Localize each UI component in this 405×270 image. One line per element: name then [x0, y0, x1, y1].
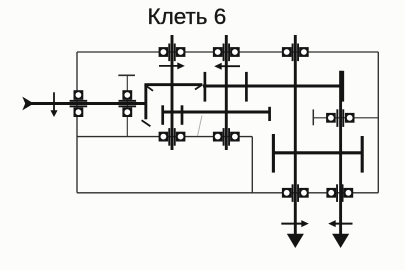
gear cap C1b	[245, 72, 248, 102]
bearing B7 support bracket	[313, 109, 378, 125]
svg-text:Клеть 6: Клеть 6	[148, 4, 227, 29]
gear cap C2a	[161, 105, 164, 125]
housing frame mid wall	[77, 136, 252, 138]
housing frame step wall	[251, 137, 253, 193]
bearing top shaft 1	[159, 44, 186, 62]
gear cap C2b	[181, 105, 184, 125]
bevel gear Z2 on shaft 1	[144, 83, 202, 86]
gear cap C1a	[204, 72, 207, 102]
bearing bottom shaft 1	[159, 128, 186, 146]
bearing top shaft 3	[282, 44, 309, 62]
faint support line	[198, 116, 203, 137]
gear cap C3b	[361, 136, 364, 173]
bevel tick right	[195, 85, 203, 90]
output arrow head shaft 3	[287, 234, 304, 248]
shaft 1	[171, 35, 174, 150]
input arrow head	[22, 97, 34, 111]
gear mesh line M2	[162, 110, 270, 113]
output arrow head shaft 4	[332, 234, 349, 248]
rotation arrow shaft 2	[214, 63, 240, 70]
shaft 4	[339, 71, 342, 238]
bevel tick top	[146, 85, 154, 91]
bevel gear Z1 on input shaft	[144, 85, 147, 119]
gear cap C3a	[272, 134, 275, 173]
gear mesh line M1	[203, 84, 344, 87]
housing frame top wall	[77, 51, 378, 53]
bearing A on input shaft	[70, 90, 88, 117]
bearing B on input shaft	[119, 90, 137, 117]
housing frame bottom wall	[77, 192, 378, 194]
bearing bottom shaft 4	[326, 184, 353, 202]
input shaft	[31, 102, 147, 105]
bearing mid shaft 4	[326, 109, 354, 127]
rotation arrow shaft 4	[328, 220, 352, 227]
bearing B2 support bracket	[118, 75, 135, 136]
bearing bottom shaft 2	[213, 128, 240, 146]
housing frame right wall	[377, 52, 379, 193]
gear cap C1c	[341, 71, 344, 102]
bearing top shaft 2	[213, 44, 240, 62]
gear mesh line M3	[272, 151, 363, 154]
shaft 2	[225, 35, 228, 150]
bevel tick bottom	[142, 120, 151, 126]
housing frame left wall	[76, 52, 78, 193]
bearing bottom shaft 3	[282, 184, 309, 202]
shaft 3	[294, 35, 297, 238]
gear cap C2c	[268, 107, 271, 121]
down arrow on input shaft	[50, 92, 57, 117]
rotation arrow shaft 3	[281, 220, 309, 227]
rotation arrow shaft 1	[159, 62, 185, 69]
